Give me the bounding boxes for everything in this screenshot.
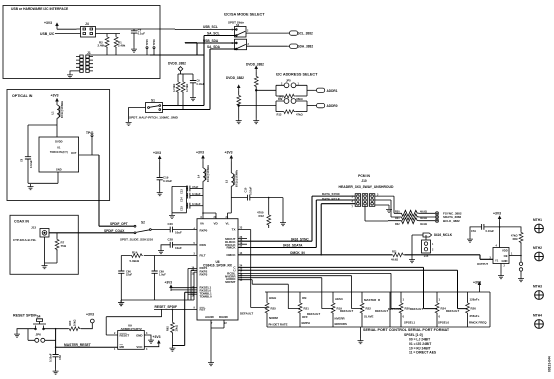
- svg-text:Y1: Y1: [495, 259, 499, 263]
- capacitor C9: [192, 74, 194, 81]
- svg-text:GND: GND: [502, 259, 508, 263]
- jumper block row1 (JP5 + R6): [276, 85, 307, 96]
- wire USB_I2C to J4: [55, 33, 77, 35]
- wire OMCK_IN riser to header: [321, 204, 355, 255]
- ground (decoupling stack): [169, 213, 175, 219]
- capacitor C69: [154, 256, 156, 272]
- svg-text:128xFs: 128xFs: [470, 298, 480, 302]
- svg-text:MTH1: MTH1: [533, 218, 542, 222]
- wire row2 to jumper block: [239, 105, 276, 107]
- wire J4 to C7 / out: [100, 28, 237, 31]
- resistor R26: [466, 302, 470, 314]
- svg-text:R22: R22: [366, 306, 372, 310]
- svg-text:VCC: VCC: [136, 345, 143, 349]
- wire bottom bus: [86, 54, 155, 56]
- resistor R29 47k: [519, 232, 523, 244]
- wire bus exit to USB_SDA riser: [150, 43, 236, 55]
- svg-text:+3V3: +3V3: [153, 151, 161, 155]
- resistor R22: [360, 302, 364, 314]
- wire S4 left to ground: [17, 329, 36, 332]
- svg-text:10kΩ: 10kΩ: [73, 320, 77, 326]
- svg-text:C10: C10: [244, 187, 248, 192]
- wire RMCK to DATA_BCLK riser: [238, 200, 355, 248]
- power DVDD_3882 (row2): [237, 84, 241, 91]
- svg-text:0.10uF: 0.10uF: [197, 83, 205, 86]
- wire rail to C61: [484, 226, 500, 228]
- ground (R62): [169, 346, 175, 352]
- wire J1 to ground: [70, 71, 76, 72]
- resistor R5: [182, 74, 184, 81]
- resistor R32: [400, 218, 435, 224]
- wire C69 bottom: [154, 273, 156, 300]
- svg-text:DATA_BCLK: DATA_BCLK: [322, 197, 341, 201]
- ground (C7): [131, 47, 137, 53]
- svg-text:MTH3: MTH3: [533, 285, 542, 289]
- svg-text:J15: J15: [424, 254, 429, 258]
- svg-text:L1: L1: [51, 111, 55, 115]
- svg-text:I2C ADDRESS SELECT: I2C ADDRESS SELECT: [276, 73, 318, 77]
- wire pin RCBL to SPSEL1 block: [238, 273, 401, 308]
- ground (C63): [53, 369, 59, 375]
- svg-text:DVDD_3882: DVDD_3882: [226, 76, 244, 80]
- svg-text:SPDIF_COAX: SPDIF_COAX: [104, 229, 125, 233]
- svg-text:R32: R32: [395, 223, 400, 226]
- svg-text:MTH2: MTH2: [533, 246, 542, 250]
- svg-text:J1: J1: [87, 51, 91, 55]
- resistor R11 (series on OMCK line): [392, 253, 404, 257]
- wire TDMBL1 tie: [172, 292, 197, 345]
- capacitor C13 47uF: [187, 188, 188, 190]
- svg-text:8416_MCLK: 8416_MCLK: [434, 233, 453, 237]
- svg-text:DATA_SYNC: DATA_SYNC: [322, 192, 341, 196]
- svg-text:0.10uF: 0.10uF: [163, 179, 172, 183]
- svg-text:8416_SYNC: 8416_SYNC: [291, 237, 309, 241]
- svg-text:C20: C20: [168, 222, 174, 226]
- svg-text:2.49k: 2.49k: [98, 44, 106, 48]
- svg-text:+: +: [185, 185, 187, 189]
- wire RXSEL1: [171, 287, 197, 289]
- svg-text:SPDT_SLIDE_SSH1216: SPDT_SLIDE_SSH1216: [120, 238, 153, 242]
- svg-text:+3V3: +3V3: [165, 281, 173, 285]
- wire U9 VCC to +3V3: [144, 345, 159, 348]
- ground (C19): [157, 190, 163, 196]
- svg-text:R60: R60: [68, 320, 72, 325]
- wire C28 left to gnd: [161, 245, 170, 248]
- power +3V3 (U9): [157, 340, 161, 347]
- svg-text:SPDIF_OPT: SPDIF_OPT: [110, 222, 128, 226]
- power +3V3 (USB box): [55, 22, 59, 29]
- svg-text:AGND: AGND: [205, 315, 215, 319]
- header J1: [80, 55, 89, 72]
- ferrite bead L4: [202, 162, 204, 169]
- wire U9 RESET to RESET_SPDIF: [106, 309, 161, 335]
- wire RXP1/2/3 tie-downs: [188, 269, 197, 301]
- wire +3V3 rail to Y1 VDD: [499, 222, 501, 248]
- power +3V3 (RXSEL): [169, 284, 173, 291]
- svg-text:C61: C61: [471, 229, 476, 233]
- wire C20 to RXP0: [173, 229, 198, 231]
- ground (J15): [411, 255, 413, 257]
- svg-text:DVDD: DVDD: [55, 140, 62, 144]
- ground (Y1): [498, 273, 504, 279]
- options top bus: [265, 291, 490, 293]
- wire J10 row1 to R30: [375, 196, 400, 213]
- resistor R31: [400, 214, 435, 220]
- svg-text:R31: R31: [395, 217, 400, 220]
- resistor R30: [400, 210, 435, 216]
- svg-text:+3V3: +3V3: [153, 335, 161, 339]
- svg-text:RMCK FREQ: RMCK FREQ: [469, 321, 487, 325]
- terminal SCL_3882: [287, 31, 298, 35]
- wire U1 GND: [28, 172, 58, 183]
- svg-text:HIGH: HIGH: [269, 296, 276, 300]
- svg-text:TP41: TP41: [86, 131, 94, 135]
- resistor R21: [298, 302, 302, 314]
- svg-text:OUTPUT: OUTPUT: [477, 262, 488, 266]
- capacitor C14: [187, 195, 188, 197]
- wire C10 to R12: [250, 197, 283, 199]
- resistor R60 10k: [69, 327, 81, 331]
- ground (J10): [375, 205, 389, 207]
- connector J4: [81, 27, 96, 38]
- wire VD pin tie: [203, 213, 216, 219]
- wire pullup rail: [178, 73, 193, 75]
- wire S4 right to R60: [44, 328, 69, 330]
- wire row1 to ADDR1: [307, 89, 314, 91]
- svg-text:TDMBL0: TDMBL0: [200, 294, 212, 298]
- svg-text:SA_SDA: SA_SDA: [207, 45, 221, 49]
- wire S1 left stub: [129, 108, 146, 120]
- capacitor C20: [170, 227, 172, 233]
- svg-text:600Ω @100MHz: 600Ω @100MHz: [208, 164, 210, 182]
- oscillator Y1 body: [493, 248, 509, 264]
- resistor R20: [399, 302, 403, 314]
- svg-text:SERIAL PORT CONTROL SERIAL PO: SERIAL PORT CONTROL SERIAL PORT FORMAT: [363, 328, 450, 332]
- svg-text:+3V3: +3V3: [225, 151, 233, 155]
- capacitor C66: [118, 271, 124, 273]
- IC U1 TORX147L: [39, 137, 79, 172]
- svg-text:MTH4: MTH4: [533, 314, 542, 318]
- svg-text:USB_I2C: USB_I2C: [40, 32, 55, 36]
- resistor R2 2.49k: [106, 34, 108, 37]
- ferrite bead L1: [56, 104, 58, 107]
- svg-text:49.9Ω: 49.9Ω: [420, 223, 427, 226]
- power +3V3 (optical): [55, 98, 59, 105]
- svg-text:R26: R26: [471, 306, 477, 310]
- resistor R13 47k on bottom edge: [276, 111, 283, 113]
- svg-text:C28: C28: [168, 238, 174, 242]
- wire TX to option block1: [238, 230, 267, 308]
- svg-text:J10: J10: [361, 179, 367, 183]
- svg-text:J4: J4: [85, 22, 89, 26]
- power +3V3 (C19 rail): [158, 155, 162, 162]
- svg-text:S1: S1: [151, 98, 155, 102]
- ground (options): [360, 327, 362, 338]
- svg-text:+3V3: +3V3: [44, 21, 52, 25]
- svg-text:C14: C14: [180, 197, 184, 202]
- svg-text:OMCK: OMCK: [226, 253, 236, 257]
- svg-text:R30: R30: [395, 210, 400, 213]
- svg-text:J13: J13: [31, 226, 36, 230]
- wire C28 to RXN: [173, 244, 198, 246]
- svg-text:DVDD_3882: DVDD_3882: [168, 62, 186, 66]
- svg-text:BCLK_3882: BCLK_3882: [443, 219, 460, 223]
- svg-text:PCM IN: PCM IN: [358, 174, 370, 178]
- svg-text:R29: R29: [513, 237, 518, 241]
- svg-text:RXP3: RXP3: [200, 272, 208, 276]
- svg-text:VDD: VDD: [502, 249, 508, 253]
- wire rail to R29: [500, 227, 521, 232]
- svg-text:GND: GND: [56, 168, 62, 172]
- terminal ADDR0: [314, 103, 325, 107]
- power +3V3 (Y1): [498, 215, 502, 222]
- wire C66 bottom: [120, 273, 122, 300]
- svg-text:USB or HARDWARE I2C INTERFACE: USB or HARDWARE I2C INTERFACE: [11, 7, 69, 11]
- svg-text:ADM811TARTZ: ADM811TARTZ: [121, 327, 142, 331]
- svg-text:DVDD_3882: DVDD_3882: [246, 63, 264, 67]
- test point TP41: [91, 137, 93, 156]
- jumper (OE to gnd): [520, 256, 522, 263]
- svg-text:0.10uF: 0.10uF: [249, 186, 253, 195]
- jumper J15: [422, 240, 431, 253]
- svg-text:SCL_3882: SCL_3882: [298, 31, 313, 35]
- ground (U9): [148, 338, 154, 344]
- svg-text:C13: C13: [180, 189, 184, 194]
- svg-text:R25: R25: [271, 306, 277, 310]
- ground (RXP tie): [118, 300, 124, 306]
- wire pin SDFMT to EMPH block: [238, 280, 300, 309]
- svg-text:VL: VL: [226, 222, 230, 226]
- ground (S4): [14, 332, 20, 338]
- svg-text:4.74kΩ: 4.74kΩ: [186, 84, 189, 92]
- svg-text:R13: R13: [277, 113, 282, 117]
- capacitor C61: [482, 224, 484, 230]
- wire MCLK tap: [412, 235, 423, 255]
- svg-text:JP6: JP6: [36, 332, 42, 336]
- wire RXSEL0: [171, 289, 197, 291]
- svg-text:47kΩ: 47kΩ: [296, 97, 303, 101]
- svg-text:TP16: TP16: [152, 39, 156, 46]
- wire AGND/DGND to ground: [211, 320, 224, 360]
- wire +3V3 to J4: [57, 28, 77, 30]
- capacitor C10: [248, 195, 250, 201]
- svg-text:I2C/SA MODE SELECT: I2C/SA MODE SELECT: [224, 13, 265, 17]
- svg-text:SPSEL0: SPSEL0: [438, 321, 449, 325]
- wire SDA out: [247, 45, 288, 47]
- wire pin AUDIO to ERRORS block: [238, 278, 333, 309]
- svg-text:10uF: 10uF: [175, 231, 182, 235]
- ground (C28): [158, 248, 164, 254]
- wire SA_SDA from S1: [163, 49, 237, 110]
- svg-text:8416_SDATA: 8416_SDATA: [283, 244, 303, 248]
- svg-text:NVERR: NVERR: [335, 317, 346, 321]
- terminal FSYNC_3882: [435, 212, 438, 215]
- wire SA_SCL from S1: [163, 36, 237, 106]
- svg-text:47uF: 47uF: [192, 185, 199, 189]
- svg-text:256xFs: 256xFs: [470, 314, 480, 318]
- option block box edges group1: [267, 292, 390, 327]
- svg-text:0.10uF: 0.10uF: [486, 229, 495, 233]
- svg-text:47kΩ: 47kΩ: [296, 113, 303, 117]
- wire RESET_SPDIF to RST pin: [154, 308, 197, 310]
- resistor R12 4700: [268, 198, 270, 214]
- wire row1 to jumper block: [256, 89, 276, 91]
- svg-text:R21: R21: [304, 306, 310, 310]
- svg-text:0.1uF: 0.1uF: [138, 32, 146, 36]
- wire pin NVERR to MASTER/SLAVE block: [238, 276, 362, 309]
- svg-text:RESET_SPDIF: RESET_SPDIF: [155, 305, 178, 309]
- wire tie-down bus to ground: [121, 299, 194, 301]
- ground (coax): [42, 263, 48, 269]
- ground (C9): [190, 95, 196, 101]
- svg-text:SPDT_HALF-PITCH_150MC_SMD: SPDT_HALF-PITCH_150MC_SMD: [129, 116, 179, 120]
- terminal SDA_3882: [287, 44, 298, 48]
- svg-text:ADDR1: ADDR1: [327, 89, 338, 93]
- svg-text:DEFAULT: DEFAULT: [388, 307, 401, 311]
- header J10 3x3: [355, 194, 360, 207]
- svg-text:09131-044: 09131-044: [548, 356, 552, 372]
- wire Y1 GND: [500, 264, 502, 274]
- svg-text:+3V3: +3V3: [51, 94, 59, 98]
- wire SDOUT stub: [238, 238, 247, 240]
- svg-text:+3V3: +3V3: [493, 212, 501, 216]
- svg-text:ERRORS: ERRORS: [335, 322, 347, 326]
- svg-text:1.0uF: 1.0uF: [159, 273, 166, 277]
- wire pin C to SPSEL0 block: [238, 267, 437, 308]
- +3V3 circle terminal: [90, 319, 94, 323]
- pushbutton S4: [33, 319, 46, 329]
- svg-text:OMCK_IN: OMCK_IN: [290, 251, 305, 255]
- wire Y1 OE to R29 node: [509, 255, 521, 257]
- svg-text:+3V3: +3V3: [86, 313, 94, 317]
- junction dot MCLK tap: [411, 254, 413, 256]
- decoupling stack rails: [172, 186, 187, 212]
- svg-text:SDFMT: SDFMT: [225, 280, 235, 284]
- svg-text:L4: L4: [197, 174, 201, 178]
- svg-text:PH DET RATE: PH DET RATE: [269, 323, 288, 327]
- svg-text:R62: R62: [166, 326, 170, 331]
- svg-text:DEFAULT: DEFAULT: [375, 309, 388, 313]
- wire VL branch to C10: [231, 197, 247, 199]
- wire J10 row3 to R32: [365, 206, 400, 221]
- terminal BCLK_3882: [435, 219, 438, 222]
- svg-text:RXN: RXN: [200, 243, 206, 247]
- resistor R7 75ohm: [56, 233, 58, 239]
- svg-text:L5: L5: [225, 179, 229, 183]
- resistor R24: [435, 302, 439, 314]
- wire U1 OUT: [79, 154, 99, 156]
- svg-text:FILT: FILT: [200, 254, 206, 258]
- capacitor C28: [170, 242, 172, 248]
- switch S4b lower (SDA select): [235, 39, 247, 50]
- svg-text:R14: R14: [132, 251, 138, 255]
- jumper block row2 (JP1 + R13): [276, 101, 307, 112]
- resistor R25: [265, 302, 269, 314]
- svg-text:TX: TX: [232, 228, 236, 232]
- ground (row1 pullup): [253, 118, 259, 124]
- section box: USB or HARDWARE I2C interface: [3, 6, 160, 79]
- svg-text:CS8416_SPDIF_RX: CS8416_SPDIF_RX: [203, 264, 233, 268]
- capacitor C7: [133, 29, 135, 31]
- svg-text:DEFAULT: DEFAULT: [307, 312, 320, 316]
- svg-text:TORX147L(F,T): TORX147L(F,T): [50, 151, 68, 154]
- wire R14 to caps: [121, 256, 131, 272]
- terminal 8416_MCLK flag: [423, 233, 432, 237]
- svg-text:0.10uF: 0.10uF: [30, 160, 33, 168]
- resistor R8 pullup: [255, 72, 257, 76]
- svg-text:RST: RST: [200, 308, 206, 312]
- capacitor C19 on rail: [159, 162, 161, 178]
- svg-text:NORM: NORM: [269, 316, 278, 320]
- wire row2 to ADDR0: [307, 105, 314, 107]
- svg-text:MASTER: MASTER: [364, 298, 377, 302]
- wire J13 shell to gnd: [45, 237, 58, 263]
- svg-text:C63: C63: [58, 355, 62, 360]
- ground (C61): [467, 237, 473, 243]
- resistor R14: [131, 254, 143, 258]
- resistor R19: [331, 302, 335, 314]
- svg-text:R12: R12: [259, 214, 265, 218]
- svg-text:600Ω @100MHz: 600Ω @100MHz: [237, 169, 239, 187]
- svg-text:SPSEL [1:0]: SPSEL [1:0]: [404, 333, 423, 337]
- wire S2 common to C20: [151, 229, 170, 231]
- svg-text:2.49k: 2.49k: [118, 44, 126, 48]
- svg-text:OE: OE: [504, 254, 508, 258]
- svg-text:47kΩ: 47kΩ: [511, 234, 518, 238]
- svg-text:DEFAULT: DEFAULT: [410, 307, 423, 311]
- wire C61 to ground: [470, 227, 482, 237]
- resistor R6 47k on bottom edge: [276, 95, 283, 97]
- ground (OE jumper): [518, 276, 524, 282]
- wire OUT to SPDIF_OPT: [99, 155, 134, 226]
- svg-text:SPSEL1: SPSEL1: [404, 321, 415, 325]
- terminal ADDR1: [314, 88, 325, 92]
- svg-text:10kΩ: 10kΩ: [175, 325, 179, 331]
- ground (U6): [208, 360, 214, 366]
- wire junction down / MASTER_RESET: [56, 329, 118, 355]
- switch S2 SPDT slide: [134, 225, 136, 227]
- svg-text:EMPH: EMPH: [302, 321, 310, 325]
- junction dot OMCK riser: [320, 254, 322, 256]
- svg-text:4.74kΩ: 4.74kΩ: [173, 84, 176, 92]
- svg-text:USB_SDA: USB_SDA: [203, 39, 219, 43]
- test point TP16: [153, 49, 155, 56]
- resistor R4: [177, 74, 179, 81]
- capacitor C8: [28, 125, 57, 157]
- svg-text:600Ω @100MHz: 600Ω @100MHz: [62, 100, 64, 118]
- svg-text:49.9Ω: 49.9Ω: [420, 210, 427, 213]
- svg-text:AES3: AES3: [335, 297, 343, 301]
- svg-text:R11: R11: [392, 250, 397, 254]
- ground (S1): [126, 120, 132, 126]
- svg-text:10uF: 10uF: [175, 246, 182, 250]
- resistor R62 10k: [171, 309, 173, 321]
- power DVDD_3882 (S1 pullups, diamond): [178, 67, 183, 74]
- svg-text:SLAVE: SLAVE: [364, 315, 373, 319]
- svg-text:49.9Ω: 49.9Ω: [420, 217, 427, 220]
- svg-text:C15: C15: [180, 206, 184, 211]
- svg-text:U1: U1: [57, 146, 61, 150]
- wire J4 lower to resistor tops: [100, 33, 121, 35]
- switch S1 body: [146, 103, 163, 113]
- junction dots Y1: [499, 226, 501, 228]
- wire U9 GND: [144, 335, 151, 338]
- svg-text:0.10uF: 0.10uF: [49, 353, 53, 362]
- power +3V3 (VL rail): [230, 155, 234, 162]
- ground (row2 pullup): [236, 118, 242, 124]
- svg-text:75Ω: 75Ω: [61, 244, 67, 248]
- svg-text:+3V3: +3V3: [473, 281, 481, 285]
